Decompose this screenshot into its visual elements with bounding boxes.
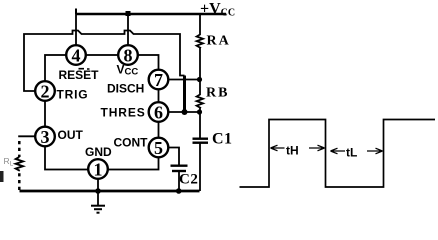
arrow tL right: [367, 148, 383, 154]
capacitor C1: [199, 112, 201, 138]
svg-text:RA: RA: [207, 34, 231, 49]
svg-text:tL: tL: [346, 146, 357, 160]
wire RL dashed lower: [18, 173, 21, 190]
wire pin6 THRES to RB/C1 junction: [169, 111, 200, 113]
svg-text:1: 1: [94, 160, 103, 180]
edge artifact left border: [0, 171, 4, 182]
ground symbol: [91, 205, 105, 207]
svg-text:C1: C1: [212, 131, 233, 148]
svg-text:THRES: THRES: [101, 106, 146, 120]
svg-text:6: 6: [154, 103, 163, 123]
pin 7: [149, 70, 169, 90]
wire ground bottom rail: [20, 190, 200, 193]
wire TRIG left and over top (pin2 to pin6 net) with hops: [24, 31, 185, 92]
svg-text:tH: tH: [286, 144, 299, 158]
pin 1: [88, 159, 108, 179]
node tick above pin4 wire: [75, 9, 77, 15]
pin 6: [149, 102, 169, 122]
svg-text:C2: C2: [179, 172, 198, 188]
capacitor C2: [171, 164, 188, 166]
svg-text:GND: GND: [85, 145, 112, 159]
svg-text:8: 8: [124, 46, 133, 66]
wire pin7 DISCH to RA/RB junction: [169, 79, 200, 81]
pin 3: [35, 127, 55, 147]
wire pin8 to rail: [127, 14, 129, 45]
node dot pin8 rail junction: [126, 11, 131, 16]
waveform output square wave: [240, 120, 436, 188]
node dot RA/RB junction: [197, 77, 202, 82]
resistor RA: [197, 15, 203, 80]
wire pin5 CONT to C2: [169, 148, 180, 166]
pin 2: [35, 81, 55, 101]
pin 4: [66, 45, 86, 65]
arrow tH right: [309, 145, 325, 151]
node dot pin1 rail junction: [95, 188, 101, 194]
svg-text:4: 4: [72, 46, 81, 66]
IC body U1 (555 timer): [45, 55, 159, 170]
wire Vcc top rail: [76, 13, 226, 15]
wire pin4 to rail: [75, 14, 77, 45]
svg-text:OUT: OUT: [58, 128, 84, 142]
svg-text:3: 3: [41, 127, 50, 147]
svg-text:7: 7: [154, 70, 163, 90]
pin 8: [118, 45, 138, 65]
wire OUT to RL (solid stub): [18, 135, 35, 137]
svg-text:DISCH: DISCH: [107, 82, 144, 96]
arrow tH left: [271, 145, 285, 151]
node dot C2 rail junction: [176, 188, 182, 194]
pin 5: [149, 138, 169, 158]
svg-text:2: 2: [41, 82, 50, 102]
resistor RL: [16, 157, 23, 171]
label RESET overline marks: [79, 68, 90, 70]
node dot RB/C1 junction: [197, 109, 202, 114]
svg-text:TRIG: TRIG: [57, 88, 89, 102]
svg-text:5: 5: [154, 138, 163, 158]
node dot junction at pin6 wire: [182, 109, 188, 115]
wire thick vertical segment to pin6 node: [183, 76, 186, 113]
svg-text:RESET: RESET: [59, 68, 100, 82]
svg-text:RB: RB: [206, 86, 229, 101]
resistor RB: [197, 80, 203, 113]
svg-text:CONT: CONT: [114, 136, 149, 150]
arrow tL left: [331, 148, 346, 154]
wire RL dashed upper: [18, 141, 21, 157]
wire pin1 to ground: [97, 179, 99, 206]
